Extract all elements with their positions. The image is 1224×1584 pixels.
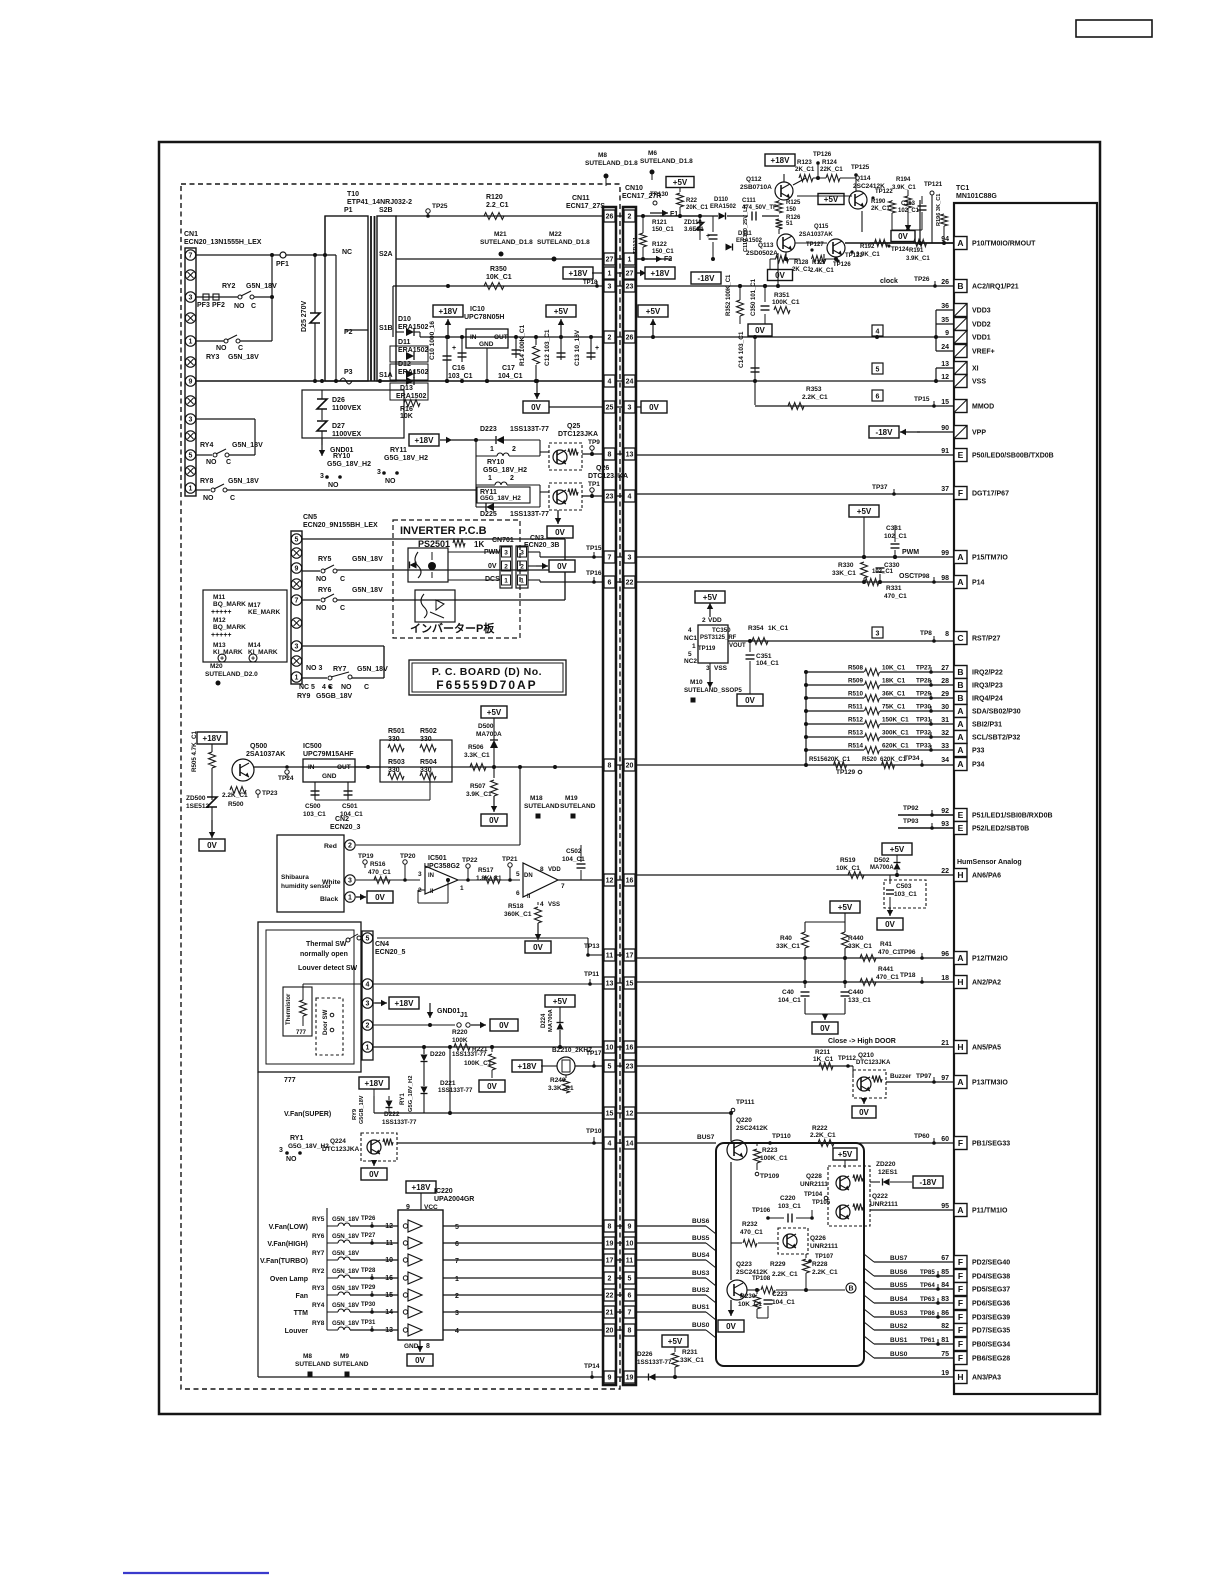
svg-text:C220: C220 (780, 1195, 796, 1202)
svg-text:R222: R222 (812, 1125, 828, 1132)
svg-text:R229: R229 (770, 1261, 786, 1268)
svg-text:ERA1502: ERA1502 (710, 204, 737, 210)
bus pin boxes row y=407 (603, 406, 635, 408)
svg-text:0V: 0V (369, 1170, 379, 1179)
svg-text:470_C1: 470_C1 (876, 974, 899, 981)
svg-text:620K_C1: 620K_C1 (882, 743, 909, 750)
svg-text:R190: R190 (871, 199, 886, 205)
svg-text:G5GB_18V: G5GB_18V (316, 693, 353, 700)
svg-text:3.9K_C1: 3.9K_C1 (892, 185, 916, 191)
svg-text:8: 8 (608, 452, 612, 459)
svg-text:M14: M14 (248, 642, 261, 649)
svg-text:SUTELAND_SSOP5: SUTELAND_SSOP5 (684, 687, 742, 694)
svg-text:RY5: RY5 (318, 556, 331, 563)
svg-text:36K_C1: 36K_C1 (882, 691, 906, 698)
svg-text:NC2: NC2 (684, 658, 697, 665)
svg-text:RY6: RY6 (318, 587, 331, 594)
svg-text:P13/TM3IO: P13/TM3IO (972, 1080, 1008, 1087)
fuse F2 (635, 258, 648, 260)
svg-text:30: 30 (941, 704, 949, 711)
svg-text:P10/TM0IO/RMOUT: P10/TM0IO/RMOUT (972, 241, 1036, 248)
svg-text:TP33: TP33 (916, 743, 932, 750)
svg-text:2.2_C1: 2.2_C1 (486, 202, 509, 209)
svg-text:+: + (251, 656, 255, 663)
0V boxed below ZD500 (211, 807, 213, 838)
wire Q210 output to P13 (886, 1081, 954, 1083)
svg-text:11: 11 (606, 953, 614, 960)
wire cluster feed from bus row 216 (660, 215, 700, 217)
svg-text:TP13: TP13 (584, 943, 600, 950)
svg-text:BUS5: BUS5 (692, 1235, 710, 1242)
svg-text:-18V: -18V (876, 428, 894, 437)
svg-text:D25 270V: D25 270V (301, 301, 308, 332)
0V boxed R40 cluster (824, 1014, 826, 1020)
svg-text:CN701: CN701 (492, 537, 514, 544)
svg-text:TP61: TP61 (920, 1337, 935, 1344)
svg-text:8: 8 (608, 1224, 612, 1231)
svg-text:F: F (958, 488, 963, 498)
+5V boxed above PWM (849, 505, 879, 517)
svg-text:NO: NO (341, 684, 352, 691)
bus pin boxes row y=765 (603, 764, 635, 766)
svg-text:C: C (340, 605, 345, 612)
wire Q222 output row P11 (870, 1209, 954, 1211)
svg-text:R519: R519 (840, 857, 856, 864)
svg-text:Q113: Q113 (758, 242, 774, 249)
wire BUS7 fanout to IC (864, 1254, 874, 1262)
svg-text:TP37: TP37 (872, 484, 888, 491)
svg-text:36: 36 (941, 303, 949, 310)
svg-text:TP123: TP123 (845, 253, 863, 259)
wire BUS4 row into trunk (635, 1259, 706, 1261)
svg-text:F: F (958, 1138, 963, 1148)
svg-text:ECN20_3B: ECN20_3B (524, 542, 559, 549)
svg-text:+++++: +++++ (211, 632, 231, 639)
svg-text:B: B (957, 281, 963, 291)
svg-text:5: 5 (366, 936, 370, 943)
bus pin boxes row y=1143 (603, 1142, 635, 1144)
-18V boxed ZD220 (913, 1176, 943, 1188)
svg-text:Red: Red (324, 843, 337, 850)
+5V boxed R231 (662, 1335, 688, 1347)
svg-text:DTC123JKA: DTC123JKA (322, 1146, 360, 1153)
svg-text:H: H (957, 1372, 963, 1382)
svg-text:UNR2111: UNR2111 (800, 1181, 828, 1188)
svg-text:R508: R508 (848, 665, 864, 672)
svg-text:+18V: +18V (651, 269, 671, 278)
svg-text:G5G_18V_H2: G5G_18V_H2 (327, 461, 371, 468)
svg-text:1SS133T-77: 1SS133T-77 (637, 1359, 672, 1366)
svg-text:M11: M11 (213, 594, 226, 601)
svg-text:ECN20_13N1555H_LEX: ECN20_13N1555H_LEX (184, 239, 262, 246)
svg-text:C17: C17 (502, 365, 515, 372)
bus pin boxes row y=955 (603, 954, 635, 956)
svg-text:1: 1 (348, 895, 352, 902)
svg-text:S1A: S1A (379, 372, 393, 379)
+5V boxed TC350 (695, 591, 725, 603)
svg-text:PD4/SEG38: PD4/SEG38 (972, 1274, 1010, 1281)
svg-text:Oven Lamp: Oven Lamp (270, 1276, 308, 1283)
svg-text:102_C1: 102_C1 (872, 569, 894, 575)
svg-text:TP30: TP30 (361, 1302, 376, 1308)
svg-text:33K_C1: 33K_C1 (776, 943, 800, 950)
CN1 pin X y=318 (185, 313, 195, 323)
svg-text:M8: M8 (303, 1353, 312, 1360)
+5V boxed D224 (545, 995, 575, 1007)
svg-text:M19: M19 (565, 795, 578, 802)
svg-text:25: 25 (606, 405, 614, 412)
svg-text:RY9: RY9 (297, 693, 310, 700)
svg-text:VDD: VDD (708, 617, 722, 624)
svg-text:RY7: RY7 (333, 666, 346, 673)
testpoint TP20 (403, 860, 407, 864)
svg-text:NC: NC (342, 249, 352, 256)
svg-text:White: White (322, 879, 341, 886)
svg-text:4: 4 (608, 379, 612, 386)
svg-text:22: 22 (941, 868, 949, 875)
svg-text:F: F (958, 1325, 963, 1335)
wire Q113 Q115 link (795, 242, 827, 244)
svg-text:+5V: +5V (673, 178, 688, 187)
svg-text:7: 7 (561, 883, 565, 890)
wire PWM row right (635, 556, 954, 558)
svg-text:19: 19 (941, 1370, 949, 1377)
svg-text:R514: R514 (848, 743, 864, 750)
svg-text:82: 82 (941, 1323, 949, 1330)
svg-text:NO: NO (385, 478, 396, 485)
svg-text:TP34: TP34 (904, 755, 920, 762)
svg-text:B: B (957, 693, 963, 703)
svg-text:INVERTER P.C.B: INVERTER P.C.B (400, 525, 487, 537)
svg-text:G5N_18V: G5N_18V (332, 1268, 360, 1275)
wire P3 squiggle (340, 378, 352, 384)
svg-text:17: 17 (626, 953, 634, 960)
svg-text:GND: GND (322, 773, 337, 780)
svg-text:RY4: RY4 (312, 1302, 325, 1309)
svg-text:104_C1: 104_C1 (772, 1299, 795, 1306)
svg-text:NO: NO (216, 345, 227, 352)
wire CN5-5 row (302, 538, 565, 540)
svg-text:R122: R122 (652, 241, 667, 248)
svg-text:Thermistor: Thermistor (286, 993, 292, 1025)
0V label right of bus (635, 406, 641, 408)
svg-text:M12: M12 (213, 617, 226, 624)
svg-text:TP11: TP11 (584, 971, 600, 978)
svg-text:75: 75 (941, 1351, 949, 1358)
svg-text:TC1: TC1 (956, 185, 969, 192)
svg-text:KI_MARK: KI_MARK (213, 649, 243, 656)
svg-text:NO: NO (203, 495, 214, 502)
svg-text:6: 6 (608, 580, 612, 587)
svg-text:UNR2111: UNR2111 (810, 1243, 838, 1250)
svg-text:M22: M22 (549, 231, 562, 238)
svg-text:SUTELAND: SUTELAND (560, 803, 596, 810)
op-amp IC501b (523, 863, 558, 897)
svg-text:TP126: TP126 (833, 262, 851, 268)
svg-text:93: 93 (941, 821, 949, 828)
svg-text:SDA/SB02/P30: SDA/SB02/P30 (972, 709, 1021, 716)
svg-text:330: 330 (420, 736, 432, 743)
wire BUS3 row into trunk (635, 1277, 706, 1279)
wire BUS6 row into trunk (635, 1225, 706, 1227)
0V boxed below IC220 (407, 1354, 433, 1366)
svg-text:VSS: VSS (548, 902, 560, 908)
wire buzzer row to bus (575, 1065, 603, 1067)
svg-text:150: 150 (786, 207, 797, 213)
svg-text:23: 23 (606, 494, 614, 501)
transformer T10 primary winding (325, 216, 368, 381)
CN5 pin X y=661 (291, 656, 301, 666)
svg-text:RY8: RY8 (200, 478, 213, 485)
svg-text:+5V: +5V (553, 997, 568, 1006)
svg-text:Q224: Q224 (330, 1138, 346, 1145)
svg-text:F65559D70AP: F65559D70AP (436, 678, 537, 692)
svg-text:+18V: +18V (412, 1183, 432, 1192)
svg-text:23: 23 (626, 1064, 634, 1071)
svg-text:+++++: +++++ (211, 609, 231, 616)
svg-text:G5N_18V: G5N_18V (332, 1285, 360, 1292)
svg-text:TP126: TP126 (813, 151, 832, 158)
svg-text:0V: 0V (489, 816, 499, 825)
svg-text:R517: R517 (478, 867, 494, 874)
svg-text:Close -> High DOOR: Close -> High DOOR (828, 1038, 896, 1045)
svg-text:BUS5: BUS5 (890, 1282, 908, 1289)
svg-text:16: 16 (626, 1045, 634, 1052)
svg-text:IN: IN (470, 334, 477, 341)
svg-text:A: A (957, 953, 963, 963)
svg-text:II: II (527, 894, 531, 900)
svg-text:TP109: TP109 (760, 1173, 780, 1180)
svg-text:0V: 0V (755, 326, 765, 335)
wire CN1-3 row (196, 296, 238, 298)
IRQ ladder vertical rail (805, 672, 807, 765)
svg-text:1K_C1: 1K_C1 (768, 625, 789, 632)
svg-text:5: 5 (876, 367, 880, 374)
wire thermistor to pin4 row (303, 983, 362, 985)
svg-text:4: 4 (688, 627, 692, 634)
svg-text:IC500: IC500 (303, 743, 322, 750)
bus pin boxes row y=496 (603, 495, 635, 497)
svg-text:TP25: TP25 (432, 203, 448, 210)
svg-text:Fan: Fan (296, 1293, 308, 1300)
svg-text:Black: Black (320, 896, 338, 903)
svg-text:G5N_18V: G5N_18V (332, 1302, 360, 1309)
svg-text:M8: M8 (598, 152, 607, 159)
svg-text:Q210: Q210 (858, 1052, 874, 1059)
bus pin boxes row y=1047 (603, 1046, 635, 1048)
wire CN2 pin2 top row (356, 844, 520, 846)
svg-text:D27: D27 (332, 423, 345, 430)
svg-text:Q220: Q220 (736, 1117, 752, 1124)
bus pin boxes row y=273 (603, 272, 635, 274)
svg-text:29: 29 (941, 691, 949, 698)
wire P12 row right (635, 957, 954, 959)
svg-text:17: 17 (606, 1258, 614, 1265)
svg-text:H: H (957, 977, 963, 987)
wire OSC row right (635, 581, 954, 583)
svg-text:67: 67 (941, 1255, 949, 1262)
svg-text:D225: D225 (480, 511, 497, 518)
svg-text:300K_C1: 300K_C1 (882, 730, 909, 737)
svg-text:10: 10 (606, 1045, 614, 1052)
svg-text:12: 12 (626, 1111, 634, 1118)
svg-text:2: 2 (455, 1293, 459, 1300)
svg-text:+5V: +5V (838, 903, 853, 912)
svg-text:2: 2 (702, 617, 706, 624)
svg-text:0V: 0V (415, 1356, 425, 1365)
svg-text:TP129: TP129 (836, 769, 856, 776)
svg-text:G5N_18V: G5N_18V (332, 1216, 360, 1223)
svg-text:3: 3 (628, 555, 632, 562)
svg-text:A: A (957, 1205, 963, 1215)
svg-text:TP124: TP124 (891, 247, 909, 253)
svg-text:85: 85 (941, 1269, 949, 1276)
svg-text:TP16: TP16 (586, 570, 602, 577)
svg-text:+: + (220, 656, 224, 663)
svg-text:8: 8 (426, 1343, 430, 1350)
svg-text:C350 101_C1: C350 101_C1 (751, 278, 757, 316)
node B circled (846, 1283, 856, 1293)
svg-text:C: C (251, 303, 256, 310)
svg-text:A: A (957, 706, 963, 716)
svg-text:TP110: TP110 (772, 1133, 791, 1140)
svg-text:S2A: S2A (379, 251, 393, 258)
svg-text:R520: R520 (862, 756, 877, 763)
svg-text:normally open: normally open (300, 951, 348, 958)
+18V boxed at rectifier output (433, 305, 463, 317)
svg-text:2K_C1: 2K_C1 (792, 267, 811, 273)
wire row TP9 to bus (582, 453, 603, 455)
svg-text:SCL/SBT2/P32: SCL/SBT2/P32 (972, 735, 1020, 742)
svg-text:RY9: RY9 (352, 1108, 358, 1120)
svg-text:H: H (957, 870, 963, 880)
wire AN5 row right (635, 1046, 954, 1048)
wire row TP1 to bus (582, 495, 603, 497)
svg-text:C111: C111 (742, 198, 756, 204)
svg-text:620K_C1: 620K_C1 (824, 756, 851, 763)
svg-text:F1: F1 (670, 211, 678, 218)
svg-text:R120: R120 (486, 194, 503, 201)
svg-text:C113: C113 (901, 201, 916, 207)
svg-text:SUTELAND_D1.8: SUTELAND_D1.8 (537, 239, 590, 246)
bus pin boxes row y=454 (603, 453, 635, 455)
svg-text:TP18: TP18 (900, 972, 916, 979)
svg-text:II: II (430, 889, 434, 895)
svg-text:6: 6 (516, 890, 520, 897)
CN1 pin 3 y=297 (185, 292, 195, 302)
svg-text:2: 2 (628, 214, 632, 221)
svg-text:TP22: TP22 (462, 857, 478, 864)
svg-text:-18V: -18V (698, 274, 716, 283)
svg-text:IC220: IC220 (434, 1188, 453, 1195)
wire op-amp2 output to bus (558, 879, 603, 881)
CN1 pin X y=275 (185, 270, 195, 280)
svg-text:6: 6 (628, 1293, 632, 1300)
svg-text:M9: M9 (340, 1353, 349, 1360)
CN5 pin X y=553 (291, 548, 301, 558)
svg-text:MMOD: MMOD (972, 404, 994, 411)
svg-text:4: 4 (366, 982, 370, 989)
svg-text:2: 2 (504, 564, 508, 571)
svg-text:0V: 0V (745, 696, 755, 705)
svg-text:F: F (958, 1257, 963, 1267)
diode D13 ERA1502 with R16 (390, 383, 428, 400)
svg-text:IRQ3/P23: IRQ3/P23 (972, 683, 1003, 690)
door SW dashed box (316, 998, 343, 1055)
svg-text:3.9K_C1: 3.9K_C1 (906, 256, 930, 262)
wire T10 primary feed (324, 216, 326, 255)
svg-text:TP111: TP111 (736, 1099, 755, 1106)
svg-text:R194: R194 (896, 177, 911, 183)
svg-text:P11/TM1IO: P11/TM1IO (972, 1208, 1008, 1215)
svg-text:P50/LED0/SB00B/TXD0B: P50/LED0/SB00B/TXD0B (972, 453, 1054, 460)
svg-text:33K_C1: 33K_C1 (848, 943, 872, 950)
PC board number box (409, 660, 566, 695)
svg-text:R440: R440 (848, 935, 864, 942)
svg-text:1SS133T-77: 1SS133T-77 (510, 426, 549, 433)
svg-text:A: A (957, 238, 963, 248)
svg-text:3: 3 (189, 417, 193, 424)
svg-text:G5N_18V: G5N_18V (352, 556, 383, 563)
svg-text:G5N_18V: G5N_18V (332, 1233, 360, 1240)
CN1 pin 3 y=419 (185, 414, 195, 424)
wire 0V row CN701 (528, 565, 536, 567)
svg-text:C: C (364, 684, 369, 691)
+18V boxed IC220 (406, 1181, 436, 1193)
transformer T10 core (370, 216, 372, 381)
svg-text:RY1: RY1 (290, 1135, 303, 1142)
svg-text:TP23: TP23 (262, 790, 278, 797)
svg-text:12: 12 (941, 374, 949, 381)
svg-text:+5V: +5V (890, 845, 905, 854)
svg-text:R500: R500 (228, 801, 244, 808)
wire VSS row right y=381 (635, 380, 936, 382)
svg-text:C13 10_16V: C13 10_16V (574, 329, 581, 366)
svg-text:33K_C1: 33K_C1 (832, 570, 856, 577)
svg-text:CN10: CN10 (625, 185, 643, 192)
svg-text:CN2: CN2 (335, 816, 349, 823)
svg-text:D110: D110 (714, 197, 729, 203)
svg-text:C: C (238, 345, 243, 352)
svg-text:14: 14 (626, 1141, 634, 1148)
svg-text:470_C1: 470_C1 (368, 869, 391, 876)
svg-text:MN101C88G: MN101C88G (956, 193, 997, 200)
outer schematic border (159, 142, 1100, 1414)
CN5 pin 1 y=677 (291, 672, 301, 682)
+5V boxed R22 feed (666, 177, 694, 188)
svg-text:1: 1 (366, 1045, 370, 1052)
svg-text:BUS4: BUS4 (890, 1296, 908, 1303)
svg-text:UNR2111: UNR2111 (870, 1201, 898, 1208)
svg-text:AN2/PA2: AN2/PA2 (972, 980, 1001, 987)
svg-text:3: 3 (608, 284, 612, 291)
resistor R16 10K (404, 400, 420, 407)
svg-text:18K_C1: 18K_C1 (882, 678, 906, 685)
VPP -18V (869, 426, 899, 438)
wire stubs from M8 M6 (605, 176, 607, 186)
svg-text:D26: D26 (332, 397, 345, 404)
svg-text:+5V: +5V (668, 1337, 683, 1346)
capacitor C17 104_C1 (515, 337, 517, 358)
bus pin boxes row y=1260 (603, 1259, 635, 1261)
svg-text:CN5: CN5 (303, 514, 317, 521)
wire CN1-7 to PF1 to T10 P1 (196, 254, 336, 256)
svg-text:G5G_18V_H2: G5G_18V_H2 (480, 495, 521, 502)
svg-text:R503: R503 (388, 759, 405, 766)
svg-text:2SC2412K: 2SC2412K (736, 1125, 768, 1132)
svg-text:NO: NO (286, 1156, 297, 1163)
wire CN4 pin2 row to 0V (373, 1024, 455, 1026)
